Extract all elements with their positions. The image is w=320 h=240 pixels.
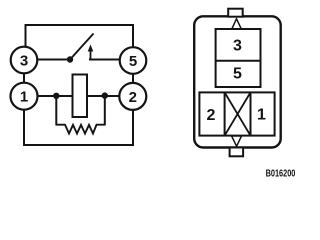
switch blade contact [70,34,94,60]
svg-text:5: 5 [233,66,242,83]
wire stub pin5 to pin2 [132,74,134,84]
terminal 3 [11,47,38,74]
pin cavity block 3/5 [216,29,261,87]
relay coil (box symbol) [73,75,88,118]
svg-text:B016200: B016200 [266,168,296,179]
switch pivot junction dot [67,56,73,62]
wire bottom rail (pin1 bottom to pin2 bottom) [24,110,133,146]
connector top mounting tab [228,9,243,17]
connector top index triangle [232,19,241,29]
svg-text:3: 3 [20,53,28,70]
pin cavity block 2/1 [199,92,274,135]
wire terminal1 to coil [38,95,74,97]
resistor R (parallel to coil) [56,125,106,134]
svg-text:3: 3 [233,38,242,55]
wire terminal3 to switch pivot [38,59,71,61]
junction dot A (left coil node) [53,93,59,99]
svg-text:2: 2 [207,107,216,124]
connector bottom index triangle [232,136,242,146]
wire top rail (pin3 top to pin5 top) [26,25,134,47]
wire resistor branch left [55,96,57,125]
terminal 1 [11,83,38,110]
svg-text:5: 5 [129,53,137,70]
wire fixed contact to terminal 5 [89,59,121,61]
wire resistor branch right [104,96,106,125]
terminal 5 [120,47,147,74]
terminal 2 [119,83,146,110]
keying cross box [225,92,251,135]
wire stub pin3 to pin1 [23,74,25,84]
switch actuation arrow [88,45,94,60]
svg-text:1: 1 [20,89,28,106]
svg-text:2: 2 [129,89,137,106]
connector bottom mounting tab [230,148,244,157]
junction dot B (right coil node) [102,92,108,98]
wire coil to terminal 2 [87,95,119,97]
svg-text:1: 1 [257,107,266,124]
connector body outline [194,16,281,147]
